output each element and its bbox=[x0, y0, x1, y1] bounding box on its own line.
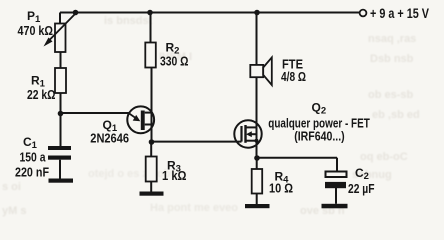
svg-text:Ha pont me eveo: Ha pont me eveo bbox=[150, 202, 238, 214]
terminal +V bbox=[360, 10, 367, 17]
background paper ghost texts bbox=[2, 15, 420, 217]
svg-text:yM s: yM s bbox=[2, 205, 26, 217]
svg-text:is bnsdst: is bnsdst bbox=[104, 15, 153, 27]
capacitor C2 bbox=[325, 172, 347, 204]
svg-text:1 kΩ: 1 kΩ bbox=[162, 168, 187, 183]
node R2 rail junction bbox=[147, 10, 153, 16]
wire source to R4 bbox=[256, 158, 258, 169]
potentiometer P1 bbox=[44, 14, 76, 53]
resistor R2 bbox=[145, 43, 156, 68]
wire source to C2 bbox=[257, 158, 337, 172]
transistor Q1 bbox=[127, 106, 154, 133]
svg-text:330 Ω: 330 Ω bbox=[160, 54, 189, 69]
resistor R4 bbox=[252, 169, 263, 194]
node B1 junction bbox=[149, 139, 155, 145]
svg-text:ob es-sb: ob es-sb bbox=[368, 89, 414, 101]
wire B1 to R3 bbox=[150, 142, 152, 157]
node speaker rail junction bbox=[254, 10, 260, 16]
wire rail to R2 bbox=[150, 13, 152, 43]
capacitor C1 bbox=[48, 146, 71, 179]
ground R4 bbox=[245, 204, 270, 208]
node emitter junction bbox=[58, 111, 64, 117]
ground C2 bbox=[322, 204, 348, 209]
transistor Q2 bbox=[234, 120, 261, 147]
wire R1 to C1 bbox=[60, 93, 62, 146]
svg-text:nsaq ,ras: nsaq ,ras bbox=[368, 33, 416, 45]
svg-text:+ 9 a + 15 V: + 9 a + 15 V bbox=[370, 6, 429, 21]
resistor R3 bbox=[146, 157, 157, 182]
wire P1 to R1 bbox=[60, 52, 62, 68]
svg-text:150 a: 150 a bbox=[20, 150, 47, 165]
wire Q2 source to node bbox=[256, 141, 258, 158]
svg-text:eb ,sb ed: eb ,sb ed bbox=[372, 109, 420, 121]
svg-text:qualquer power - FET: qualquer power - FET bbox=[268, 116, 370, 130]
svg-text:220 nF: 220 nF bbox=[15, 165, 49, 180]
ground C1 bbox=[49, 179, 74, 183]
wire emitter horizontal bbox=[61, 112, 129, 114]
wire gate bbox=[152, 141, 242, 143]
svg-text:s oi: s oi bbox=[2, 181, 21, 193]
wire speaker to Q2 drain bbox=[256, 77, 258, 127]
svg-text:(IRF640...): (IRF640...) bbox=[294, 130, 345, 144]
ground R3 bbox=[140, 192, 164, 196]
svg-text:22 kΩ: 22 kΩ bbox=[27, 87, 56, 102]
node source junction bbox=[254, 155, 260, 161]
svg-text:470 kΩ: 470 kΩ bbox=[18, 23, 54, 38]
wire top rail bbox=[60, 12, 360, 14]
svg-text:oq eb-oC: oq eb-oC bbox=[360, 151, 408, 163]
node P1 wiper junction bbox=[73, 10, 79, 16]
svg-text:10 Ω: 10 Ω bbox=[269, 181, 293, 196]
svg-text:2N2646: 2N2646 bbox=[90, 130, 129, 145]
wire R3 to ground bbox=[150, 182, 152, 192]
wire rail to speaker bbox=[256, 13, 258, 66]
svg-text:4/8 Ω: 4/8 Ω bbox=[281, 69, 306, 84]
speaker FTE bbox=[250, 57, 271, 85]
wire R4 to ground bbox=[256, 194, 258, 205]
wire R2 to B1 node bbox=[151, 68, 153, 143]
svg-text:Dsb nsb: Dsb nsb bbox=[370, 53, 414, 65]
svg-text:22 µF: 22 µF bbox=[348, 181, 375, 196]
wire P1 top lead bbox=[59, 13, 61, 24]
resistor R1 bbox=[55, 68, 66, 93]
